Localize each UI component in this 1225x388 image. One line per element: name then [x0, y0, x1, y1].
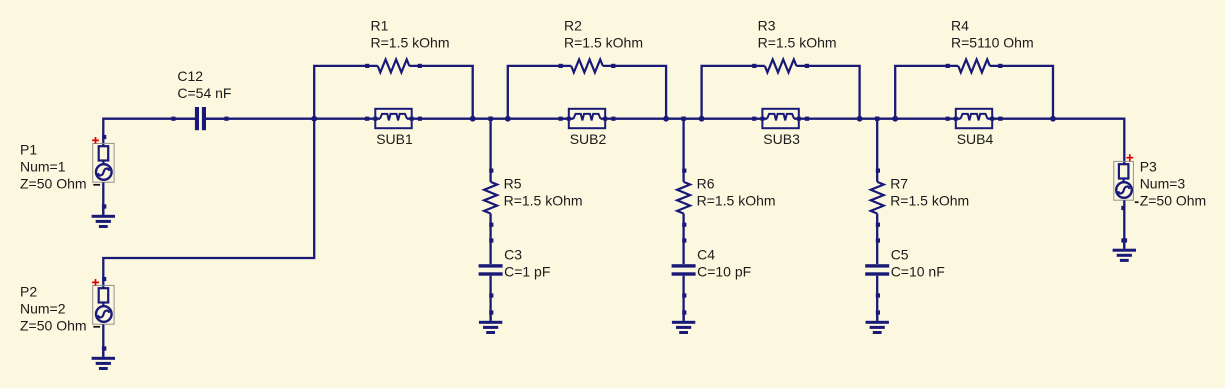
resistor R3 [752, 59, 809, 72]
node P1 top port [102, 135, 106, 139]
ground below C5 [866, 312, 889, 334]
node R7 tap [875, 117, 879, 121]
wire SUB3 to SUB4 [794, 118, 960, 120]
node R6 tap [681, 117, 685, 121]
subcircuit SUB1 [365, 109, 422, 128]
subcircuit SUB4 [946, 109, 1003, 128]
resistor R6 [677, 169, 690, 227]
svg-text:R4: R4 [951, 17, 969, 33]
node R5 tap [488, 117, 492, 121]
wire R5 to C3 [489, 214, 491, 265]
wire loop left R3 [702, 66, 765, 119]
wire P2 to ground [102, 324, 104, 356]
junction at x=895.2 [892, 116, 898, 122]
junction at x=472.7 [470, 116, 476, 122]
wire loop right R1 [409, 66, 472, 119]
ground below P2 [92, 348, 115, 370]
resistor R1 [365, 59, 422, 72]
svg-text:C=10 nF: C=10 nF [891, 264, 945, 280]
svg-text:R=1.5 kOhm: R=1.5 kOhm [890, 192, 969, 208]
subcircuit SUB2 [559, 109, 616, 128]
resistor R4 [946, 59, 1003, 72]
svg-text:R=1.5 kOhm: R=1.5 kOhm [504, 192, 583, 208]
resistor R5 [484, 169, 497, 227]
svg-text:P2: P2 [20, 283, 37, 299]
wire C5 to ground [876, 276, 878, 321]
svg-text:C5: C5 [891, 247, 909, 263]
node P2 top port [102, 277, 106, 281]
wire R7 to C5 [876, 214, 878, 265]
svg-text:C=10 pF: C=10 pF [697, 264, 751, 280]
svg-text:R5: R5 [504, 175, 522, 191]
svg-text:SUB4: SUB4 [957, 131, 994, 147]
wire loop left R2 [508, 66, 571, 119]
junction at x=859.6 [857, 116, 863, 122]
wire C3 to ground [489, 276, 491, 321]
svg-text:P3: P3 [1140, 158, 1157, 174]
svg-text:R1: R1 [371, 17, 389, 33]
wire SUB4 to P3 [988, 119, 1125, 165]
power source P3 [1114, 154, 1139, 202]
svg-text:Num=3: Num=3 [1140, 175, 1186, 191]
power source P1 [92, 137, 114, 185]
node P1 bottom port [102, 204, 106, 208]
wire C12 to SUB1 [206, 118, 381, 120]
svg-text:Num=2: Num=2 [20, 300, 66, 316]
junction at x=666.1 [663, 116, 669, 122]
svg-text:R=1.5 kOhm: R=1.5 kOhm [758, 34, 837, 50]
svg-text:R=5110 Ohm: R=5110 Ohm [951, 34, 1034, 50]
svg-text:Z=50 Ohm: Z=50 Ohm [20, 175, 87, 191]
ground below P3 [1113, 240, 1136, 262]
svg-text:C=1 pF: C=1 pF [504, 264, 550, 280]
svg-text:C12: C12 [177, 68, 203, 84]
svg-text:R=1.5 kOhm: R=1.5 kOhm [564, 34, 643, 50]
junction at x=1053.0 [1050, 116, 1056, 122]
svg-text:R2: R2 [564, 17, 582, 33]
wire node to P2 [103, 119, 314, 288]
junction at x=701.6 [699, 116, 705, 122]
node P3 top port [1121, 206, 1125, 210]
wire loop right R3 [796, 66, 859, 119]
resistor R7 [871, 169, 884, 227]
svg-text:C=54 nF: C=54 nF [177, 85, 231, 101]
resistor R2 [559, 59, 616, 72]
svg-text:R=1.5 kOhm: R=1.5 kOhm [697, 192, 776, 208]
wire bus to R7 [876, 119, 878, 182]
node P3 bottom port [1121, 238, 1125, 242]
wire P3 to ground [1123, 200, 1125, 248]
subcircuit SUB3 [752, 109, 809, 128]
svg-text:Z=50 Ohm: Z=50 Ohm [20, 317, 87, 333]
wire bus to R5 [489, 119, 491, 182]
wire R6 to C4 [682, 214, 684, 265]
capacitor C5 [865, 238, 889, 297]
svg-text:P1: P1 [20, 141, 37, 157]
svg-text:R7: R7 [890, 175, 908, 191]
svg-text:R3: R3 [758, 17, 776, 33]
node P2 bottom port [102, 346, 106, 350]
ground below C3 [479, 312, 502, 334]
svg-text:R=1.5 kOhm: R=1.5 kOhm [371, 34, 450, 50]
wire SUB1 to SUB2 [407, 118, 574, 120]
power source P2 [92, 279, 114, 327]
ground below P1 [92, 206, 115, 228]
capacitor C3 [479, 238, 503, 297]
capacitor C12 [171, 107, 228, 130]
svg-text:SUB2: SUB2 [570, 131, 607, 147]
junction at x=314.2 [311, 116, 317, 122]
svg-text:C3: C3 [504, 247, 522, 263]
wire C4 to ground [682, 276, 684, 321]
svg-text:C4: C4 [697, 247, 715, 263]
wire loop left R4 [895, 66, 958, 119]
capacitor C4 [672, 238, 696, 297]
wire bus to R6 [682, 119, 684, 182]
wire SUB2 to SUB3 [601, 118, 768, 120]
svg-text:SUB3: SUB3 [763, 131, 800, 147]
wire P1 to C12 [103, 119, 195, 146]
wire loop right R2 [603, 66, 666, 119]
svg-text:Num=1: Num=1 [20, 158, 66, 174]
wire loop left R1 [314, 66, 378, 119]
svg-text:R6: R6 [697, 175, 715, 191]
ground below C4 [672, 312, 695, 334]
svg-text:SUB1: SUB1 [376, 131, 413, 147]
junction at x=507.8 [505, 116, 511, 122]
wire loop right R4 [990, 66, 1053, 119]
wire P1 to ground [102, 182, 104, 214]
svg-text:Z=50 Ohm: Z=50 Ohm [1140, 192, 1207, 208]
